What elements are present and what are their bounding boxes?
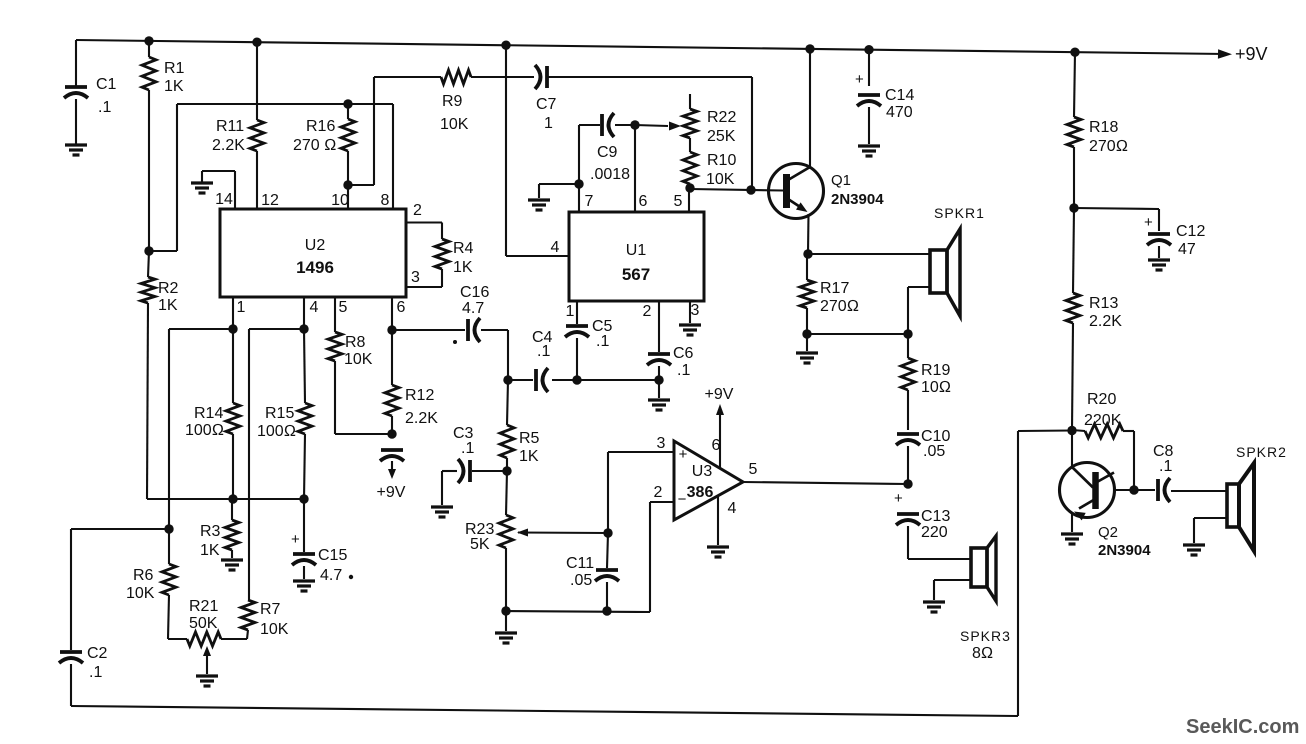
- svg-text:220: 220: [921, 524, 948, 541]
- svg-text:567: 567: [622, 265, 650, 284]
- svg-text:C2: C2: [87, 645, 108, 662]
- svg-text:U1: U1: [626, 242, 647, 259]
- svg-text:4.7: 4.7: [320, 567, 342, 584]
- svg-text:10K: 10K: [260, 621, 289, 638]
- svg-text:R19: R19: [921, 362, 950, 379]
- svg-text:1496: 1496: [296, 258, 334, 277]
- svg-text:+9V: +9V: [377, 484, 406, 501]
- svg-text:220K: 220K: [1084, 412, 1122, 429]
- svg-text:R22: R22: [707, 109, 736, 126]
- svg-text:5: 5: [339, 299, 348, 316]
- svg-text:10Ω: 10Ω: [921, 379, 951, 396]
- svg-text:Q1: Q1: [831, 172, 851, 189]
- svg-text:R8: R8: [345, 334, 366, 351]
- svg-text:+9V: +9V: [1235, 44, 1268, 64]
- svg-text:R5: R5: [519, 430, 540, 447]
- svg-text:R7: R7: [260, 601, 281, 618]
- svg-text:C6: C6: [673, 345, 694, 362]
- svg-text:2N3904: 2N3904: [831, 191, 884, 208]
- svg-text:50K: 50K: [189, 615, 218, 632]
- svg-text:.05: .05: [923, 443, 945, 460]
- svg-text:5K: 5K: [470, 536, 490, 553]
- svg-text:R15: R15: [265, 405, 294, 422]
- svg-text:+: +: [855, 71, 864, 88]
- svg-text:SPKR2: SPKR2: [1236, 444, 1287, 460]
- svg-text:R13: R13: [1089, 295, 1118, 312]
- svg-text:386: 386: [687, 484, 714, 501]
- svg-text:R21: R21: [189, 598, 218, 615]
- svg-text:R12: R12: [405, 387, 434, 404]
- svg-text:Q2: Q2: [1098, 524, 1118, 541]
- svg-text:.1: .1: [98, 99, 111, 116]
- svg-text:.05: .05: [570, 572, 592, 589]
- svg-text:U3: U3: [692, 463, 713, 480]
- svg-text:R20: R20: [1087, 391, 1116, 408]
- svg-text:10K: 10K: [706, 171, 735, 188]
- svg-text:.1: .1: [89, 664, 102, 681]
- svg-text:1: 1: [544, 115, 553, 132]
- svg-text:.0018: .0018: [590, 166, 630, 183]
- svg-text:C15: C15: [318, 547, 347, 564]
- svg-text:+9V: +9V: [705, 386, 734, 403]
- svg-text:R14: R14: [194, 405, 223, 422]
- svg-text:2.2K: 2.2K: [405, 410, 438, 427]
- svg-text:.1: .1: [1159, 458, 1172, 475]
- svg-text:R1: R1: [164, 60, 185, 77]
- svg-text:1: 1: [566, 303, 575, 320]
- svg-text:5: 5: [749, 461, 758, 478]
- svg-text:1K: 1K: [519, 448, 539, 465]
- svg-text:R16: R16: [306, 118, 335, 135]
- svg-text:2: 2: [643, 303, 652, 320]
- svg-text:C11: C11: [566, 555, 594, 572]
- svg-text:+: +: [1144, 214, 1153, 231]
- svg-text:R3: R3: [200, 523, 221, 540]
- svg-text:3: 3: [657, 435, 666, 452]
- svg-text:10K: 10K: [344, 351, 373, 368]
- svg-text:8: 8: [381, 192, 390, 209]
- svg-text:C7: C7: [536, 96, 557, 113]
- svg-text:2N3904: 2N3904: [1098, 542, 1151, 559]
- svg-text:C12: C12: [1176, 223, 1205, 240]
- svg-text:SPKR1: SPKR1: [934, 205, 985, 221]
- svg-text:R17: R17: [820, 280, 849, 297]
- svg-text:1K: 1K: [158, 297, 178, 314]
- svg-text:.1: .1: [537, 343, 550, 360]
- svg-text:10K: 10K: [440, 116, 469, 133]
- svg-text:.1: .1: [461, 440, 474, 457]
- svg-text:10K: 10K: [126, 585, 155, 602]
- svg-text:2: 2: [654, 484, 663, 501]
- svg-text:C9: C9: [597, 144, 618, 161]
- svg-text:SeekIC.com: SeekIC.com: [1186, 716, 1299, 738]
- svg-text:3: 3: [411, 269, 420, 286]
- svg-text:4: 4: [551, 239, 560, 256]
- svg-text:1K: 1K: [453, 259, 473, 276]
- svg-text:2.2K: 2.2K: [1089, 313, 1122, 330]
- svg-text:14: 14: [215, 191, 233, 208]
- svg-text:.1: .1: [596, 333, 609, 350]
- svg-text:25K: 25K: [707, 128, 736, 145]
- svg-text:2: 2: [413, 202, 422, 219]
- svg-text:C14: C14: [885, 87, 914, 104]
- svg-text:SPKR3: SPKR3: [960, 628, 1011, 644]
- svg-text:1K: 1K: [164, 78, 184, 95]
- svg-text:R6: R6: [133, 567, 154, 584]
- svg-text:6: 6: [639, 193, 648, 210]
- svg-text:R10: R10: [707, 152, 736, 169]
- svg-text:10: 10: [331, 192, 349, 209]
- svg-text:5: 5: [674, 193, 683, 210]
- svg-text:12: 12: [261, 192, 279, 209]
- svg-text:100Ω: 100Ω: [185, 422, 224, 439]
- svg-text:8Ω: 8Ω: [972, 645, 993, 662]
- svg-text:470: 470: [886, 104, 913, 121]
- svg-text:C1: C1: [96, 76, 117, 93]
- svg-text:4: 4: [310, 299, 319, 316]
- svg-text:270Ω: 270Ω: [1089, 138, 1128, 155]
- svg-text:6: 6: [397, 299, 406, 316]
- svg-text:R11: R11: [216, 118, 244, 135]
- svg-text:C13: C13: [921, 508, 950, 525]
- svg-text:+: +: [291, 531, 300, 548]
- svg-text:C16: C16: [460, 284, 489, 301]
- svg-text:1: 1: [237, 299, 246, 316]
- svg-text:4.7: 4.7: [462, 300, 484, 317]
- svg-text:4: 4: [728, 500, 737, 517]
- svg-text:+: +: [894, 490, 903, 507]
- svg-text:R9: R9: [442, 93, 463, 110]
- svg-text:100Ω: 100Ω: [257, 423, 296, 440]
- svg-text:R18: R18: [1089, 119, 1118, 136]
- svg-text:−: −: [678, 491, 687, 508]
- svg-text:47: 47: [1178, 241, 1196, 258]
- svg-text:270Ω: 270Ω: [820, 298, 859, 315]
- svg-text:+: +: [679, 446, 688, 463]
- svg-text:270 Ω: 270 Ω: [293, 137, 336, 154]
- svg-text:R4: R4: [453, 240, 474, 257]
- svg-text:R2: R2: [158, 280, 179, 297]
- svg-text:1K: 1K: [200, 542, 220, 559]
- svg-text:2.2K: 2.2K: [212, 137, 245, 154]
- svg-text:U2: U2: [305, 237, 326, 254]
- svg-text:3: 3: [691, 302, 700, 319]
- svg-text:.1: .1: [677, 362, 690, 379]
- svg-text:7: 7: [585, 193, 594, 210]
